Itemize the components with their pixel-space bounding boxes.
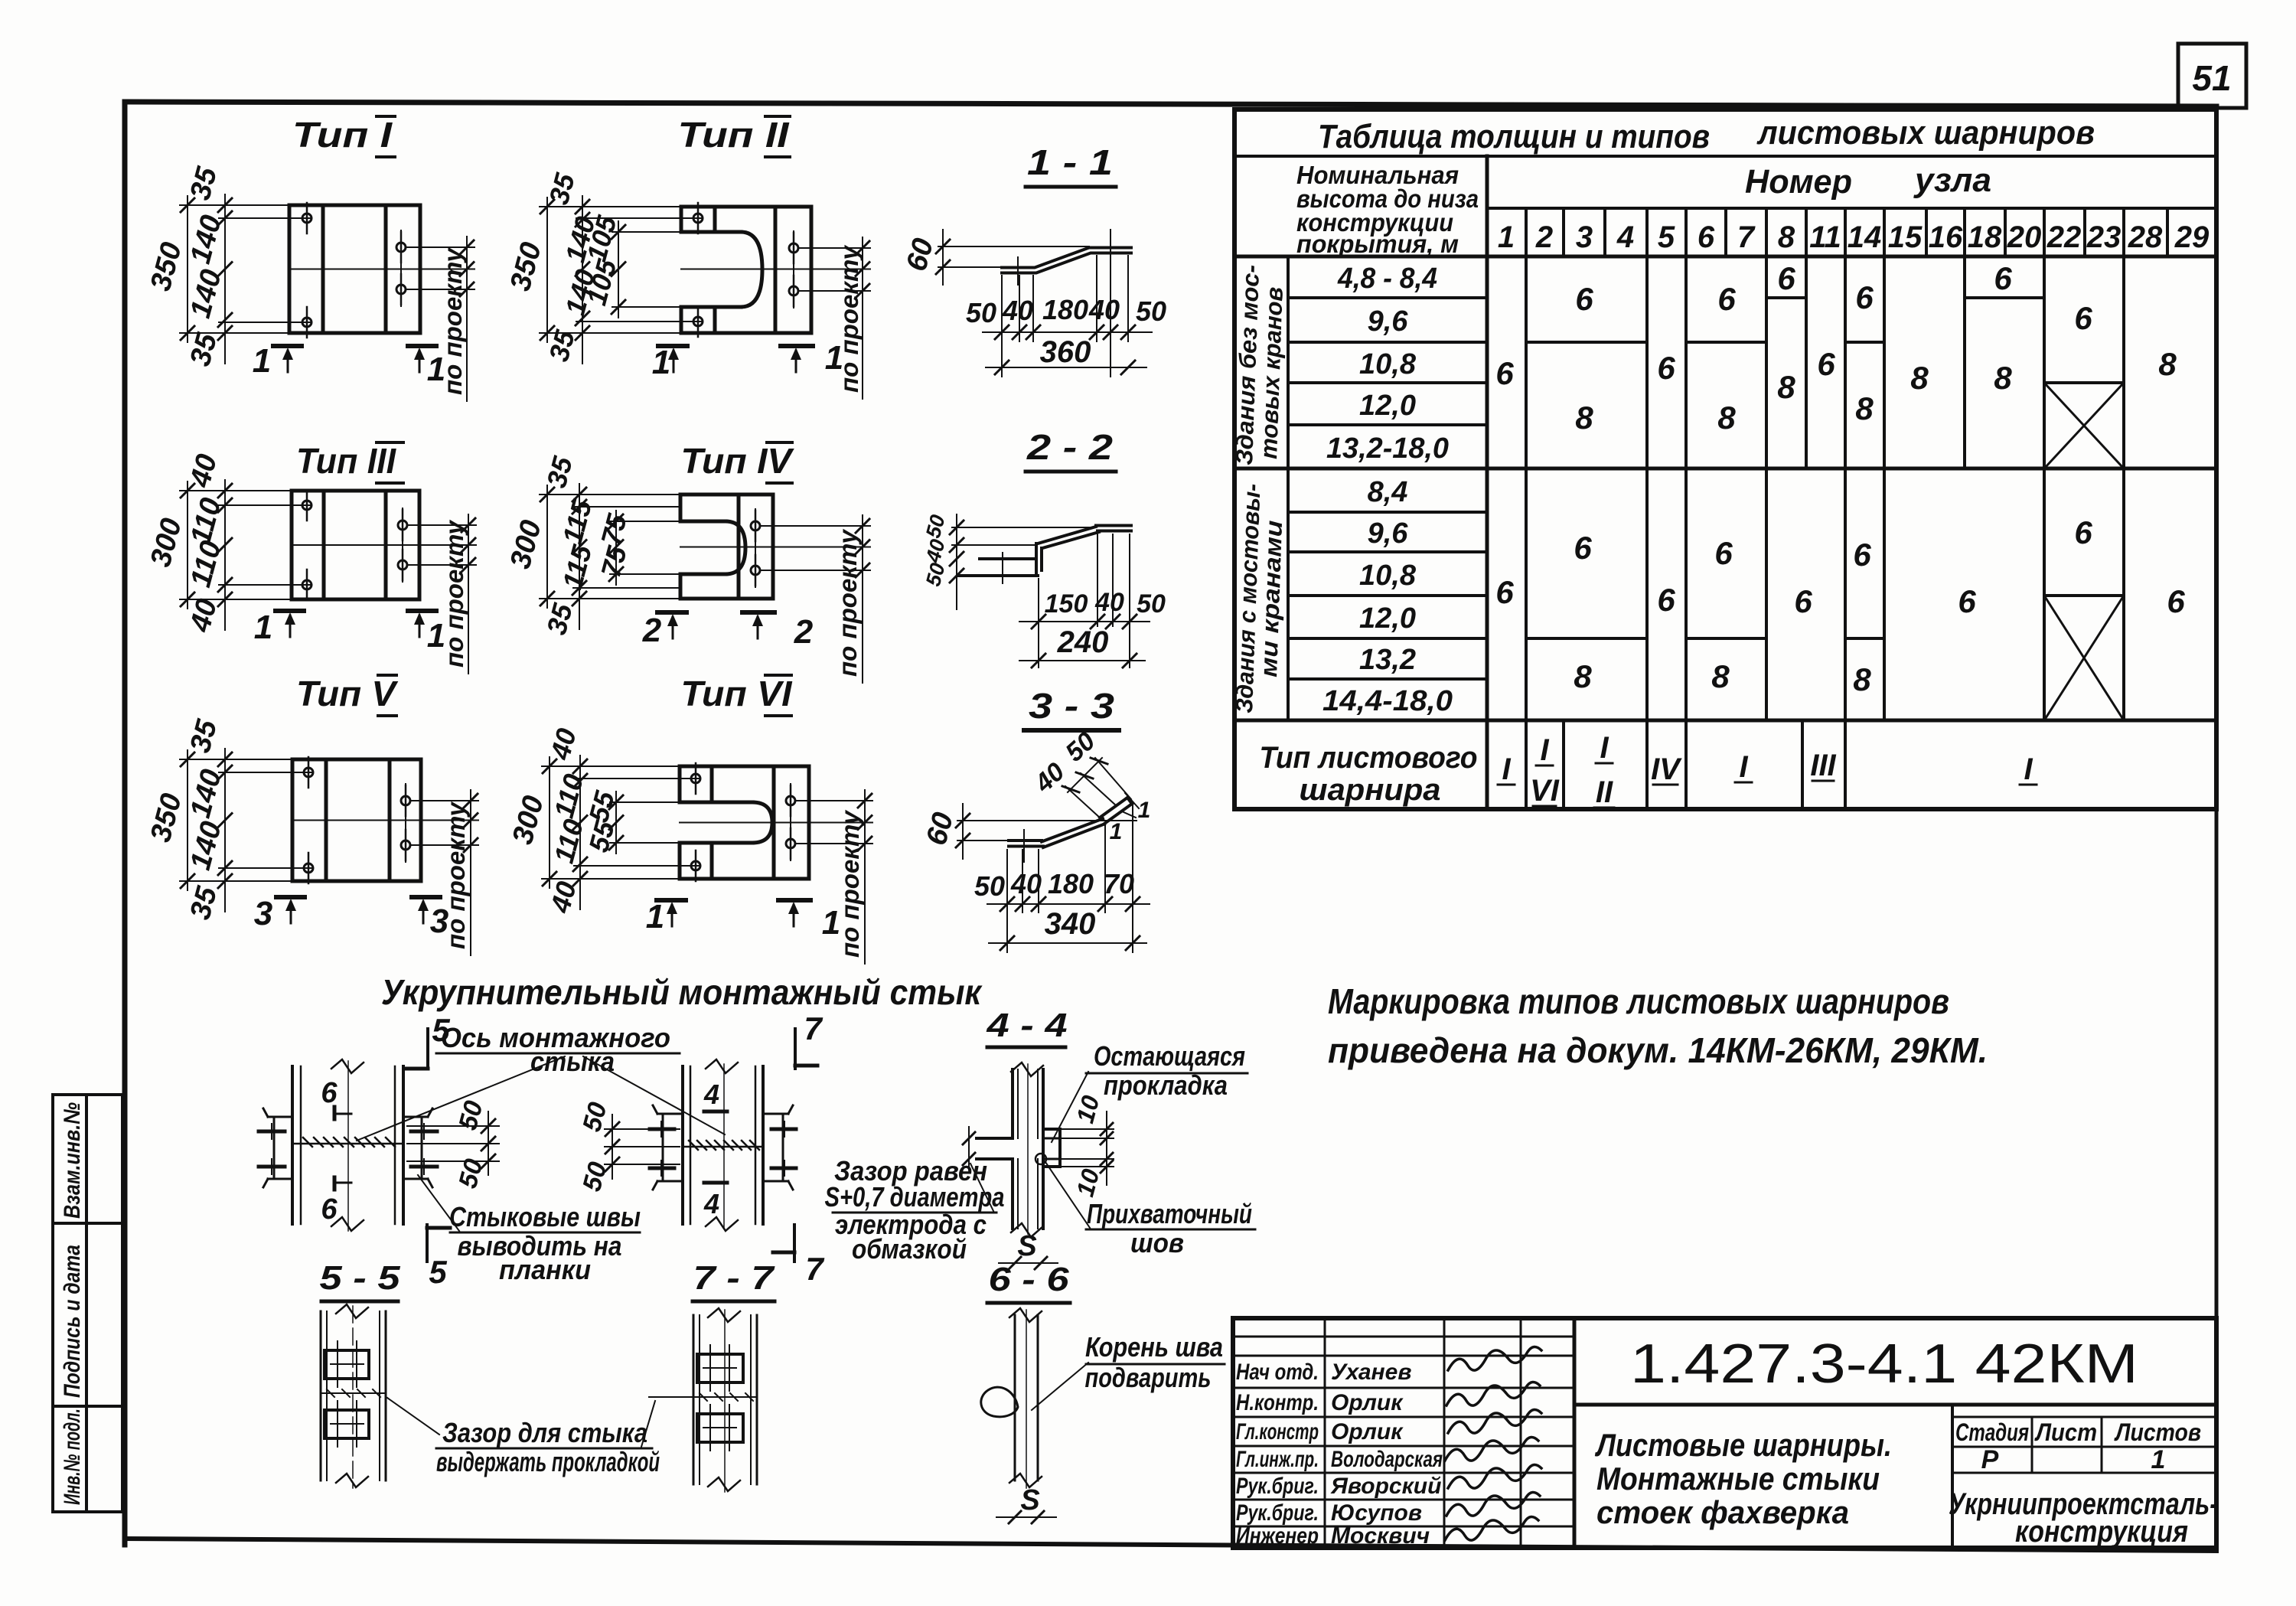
svg-text:13,2: 13,2 <box>1359 644 1416 676</box>
svg-text:340: 340 <box>1045 907 1096 941</box>
section 3-3 sheet left flat <box>1009 839 1042 842</box>
svg-text:6: 6 <box>1575 281 1593 317</box>
Тип VI plate outline bottom edge <box>680 877 809 881</box>
svg-text:2: 2 <box>642 612 662 649</box>
Тип IV plate right bolt bottom <box>751 566 760 575</box>
svg-text:50: 50 <box>966 297 996 328</box>
detail1 dim 50 50 extension lines <box>407 1125 499 1127</box>
svg-text:40: 40 <box>1002 295 1033 326</box>
svg-text:6: 6 <box>1794 583 1812 619</box>
svg-text:Тип II: Тип II <box>678 115 790 155</box>
left sidebar boxes <box>53 1095 122 1512</box>
Тип II plate right bolt extension lines <box>798 247 870 249</box>
svg-text:планки: планки <box>499 1254 591 1285</box>
svg-text:8: 8 <box>1575 400 1593 436</box>
Тип III plate right bolt top <box>398 521 407 530</box>
detail2 column right edge <box>755 1066 757 1224</box>
svg-text:Яворский: Яворский <box>1330 1474 1441 1499</box>
svg-text:I: I <box>1600 731 1609 765</box>
Тип II plate outline left edge bottom <box>680 307 683 333</box>
staff table row lines <box>1233 1336 1574 1338</box>
detail1 section 6 mark top <box>333 1107 337 1119</box>
Тип IV plate outline top edge <box>680 493 773 497</box>
detail 4-4 dim 10 extension lines <box>1060 1128 1114 1130</box>
column line 2567 <box>1963 208 1966 468</box>
svg-text:8,4: 8,4 <box>1368 476 1408 508</box>
Тип V plate section mark right <box>412 895 440 899</box>
Тип I plate po proektu dim line <box>466 237 468 401</box>
svg-text:II: II <box>1596 775 1613 809</box>
title block vertical divider staff/main <box>1573 1318 1577 1548</box>
svg-text:8: 8 <box>1778 220 1795 254</box>
detail2 dim 50 50 line <box>612 1115 613 1179</box>
svg-text:9,6: 9,6 <box>1368 517 1409 550</box>
Тип III plate inner vertical right strip <box>384 491 388 599</box>
section 2-2 sheet diagonal <box>1038 527 1096 543</box>
section 2-2 left dim line <box>956 514 957 609</box>
Тип VI plate outline left edge bottom <box>678 843 682 879</box>
Тип V plate left bolt top <box>304 768 313 777</box>
detail 4-4 break bottom <box>1011 1223 1043 1237</box>
Тип I plate right bolt bottom <box>396 285 406 294</box>
numbers sub-header top line <box>1487 207 2216 210</box>
Тип II plate tab inner vertical bottom <box>713 307 717 333</box>
detail2 splice joint <box>683 1146 763 1148</box>
svg-text:шов: шов <box>1130 1227 1184 1258</box>
Тип V plate right bolt axis <box>405 784 406 862</box>
svg-text:3 - 3: 3 - 3 <box>1029 686 1115 726</box>
svg-text:Зазор для стыка: Зазор для стыка <box>442 1417 647 1448</box>
svg-text:Прихваточный: Прихваточный <box>1087 1198 1252 1229</box>
detail 5-5 stub bolts <box>337 1341 338 1387</box>
Тип III plate right bolt extension lines <box>407 524 476 526</box>
Тип III plate left bolt top <box>302 501 311 510</box>
svg-text:Тип листового: Тип листового <box>1260 741 1478 775</box>
detail1 left cover plate <box>273 1118 276 1177</box>
svg-text:8: 8 <box>1994 360 2012 396</box>
Тип VI plate tab inner vertical top <box>710 766 714 802</box>
detail1 column axis <box>347 1061 349 1231</box>
Тип VI plate po proektu dim line <box>864 790 866 964</box>
svg-text:360: 360 <box>1040 335 1091 369</box>
svg-text:Орлик: Орлик <box>1331 1419 1404 1444</box>
svg-text:6: 6 <box>1853 537 1871 573</box>
type title numeral underlines <box>377 115 395 118</box>
svg-text:Подпись и дата: Подпись и дата <box>60 1245 85 1398</box>
Тип IV plate right bolt top <box>751 521 760 530</box>
Тип IV plate divider vertical <box>737 495 741 599</box>
signature squiggle 3 <box>1448 1409 1541 1433</box>
Тип I plate right bolt top <box>396 243 406 252</box>
Тип II plate section mark left <box>658 344 687 348</box>
section 5 mark bottom <box>426 1225 429 1262</box>
leader прихваточный <box>1045 1162 1090 1228</box>
svg-text:1: 1 <box>1138 798 1151 823</box>
Тип V plate right bolt bottom <box>401 841 410 850</box>
Тип V plate overall dimension line <box>187 750 188 890</box>
detail 7-7 stub bolts <box>709 1345 711 1391</box>
svg-text:Москвич: Москвич <box>1331 1523 1430 1549</box>
Тип IV plate slot dimension line <box>615 511 617 585</box>
Тип VI plate tab inner vertical bottom <box>710 843 714 879</box>
svg-text:Тип III: Тип III <box>296 441 396 481</box>
svg-text:Рук.бриг.: Рук.бриг. <box>1236 1474 1319 1499</box>
Тип V plate right bolt extension lines <box>410 800 478 801</box>
detail2 section 4 mark bottom <box>704 1181 727 1185</box>
signature squiggle 6 <box>1446 1492 1540 1516</box>
svg-text:51: 51 <box>2192 58 2231 98</box>
section 3-3 flap dim line <box>1068 758 1102 792</box>
svg-text:I: I <box>1540 733 1549 767</box>
svg-text:20: 20 <box>2007 220 2042 254</box>
section 2-2 sheet vertical step <box>1035 543 1038 576</box>
Тип VI plate right bolt top <box>786 796 795 805</box>
Тип VI plate section mark right <box>778 898 810 903</box>
svg-text:28: 28 <box>2128 220 2163 254</box>
leader зазор <box>970 1164 993 1211</box>
Тип VI plate section mark left <box>657 898 686 903</box>
section 7 mark bottom <box>793 1225 796 1262</box>
Тип VI plate extension lines <box>542 765 680 767</box>
detail 7-7 break bottom <box>708 1477 740 1491</box>
Тип III plate chain dimension line <box>224 480 226 630</box>
svg-text:29: 29 <box>2174 220 2210 254</box>
detail 6-6 plate edges <box>1014 1315 1016 1480</box>
svg-text:16: 16 <box>1929 220 1963 254</box>
row line 389 <box>1288 296 1487 299</box>
Тип VI plate overall dimension line <box>549 757 550 888</box>
Тип II plate section mark right <box>781 344 813 348</box>
svg-text:9,6: 9,6 <box>1368 305 1409 338</box>
Тип VI plate slot top edge <box>680 801 752 805</box>
Тип I plate center line <box>289 269 475 270</box>
Тип II plate tab bolt 1 <box>693 214 703 223</box>
detail1 splice joint line <box>292 1143 403 1145</box>
title block outer frame <box>1233 1318 2216 1548</box>
detail 7-7 hinge stub bottom <box>697 1414 743 1442</box>
svg-text:6: 6 <box>1657 582 1675 618</box>
svg-text:Лист: Лист <box>2034 1418 2097 1446</box>
Тип IV plate section mark left <box>657 610 687 615</box>
svg-text:1: 1 <box>253 342 271 380</box>
Тип IV plate slot bottom edge <box>680 573 726 576</box>
detail 4-4 hinge plate joint lines <box>1043 1138 1060 1140</box>
svg-text:покрытия, м: покрытия, м <box>1296 230 1459 258</box>
Тип VI plate right bolt extension lines <box>795 800 872 801</box>
svg-text:1: 1 <box>822 904 840 942</box>
Тип III plate section mark left <box>276 609 304 613</box>
section 3-3 extension verticals <box>1006 850 1008 952</box>
svg-text:14: 14 <box>1848 220 1882 254</box>
column numbers <box>1498 220 2210 254</box>
svg-text:S: S <box>1020 1484 1039 1516</box>
detail 5-5 joint gap <box>321 1392 386 1394</box>
table texts <box>1231 114 2210 809</box>
crossed-out cell upper 22-23 <box>2044 383 2124 468</box>
svg-text:40: 40 <box>1010 868 1042 899</box>
section 2-2 extension lines left <box>952 527 1094 528</box>
column line 2724 <box>2083 208 2086 256</box>
svg-text:50: 50 <box>1136 295 1166 327</box>
svg-text:Володарская: Володарская <box>1331 1447 1443 1472</box>
svg-text:6: 6 <box>2167 583 2185 619</box>
Тип III plate inner vertical left strip <box>322 491 326 599</box>
row line 887 <box>1288 677 1487 681</box>
detail 5-5 plate edges <box>320 1311 322 1480</box>
svg-text:7: 7 <box>1737 220 1756 254</box>
svg-text:18: 18 <box>1968 220 2002 254</box>
svg-text:Номер: Номер <box>1745 163 1852 201</box>
svg-text:узла: узла <box>1913 162 1991 199</box>
svg-text:8: 8 <box>1711 658 1730 694</box>
Тип I plate overall dimension line <box>187 196 188 342</box>
Тип V plate center line <box>292 820 478 821</box>
svg-text:180: 180 <box>1042 294 1088 325</box>
detail 4-4 hinge plate left <box>977 1137 1013 1140</box>
svg-text:Орлик: Орлик <box>1331 1390 1404 1415</box>
signature squiggle 2 <box>1446 1382 1540 1405</box>
column line 2203 <box>1684 208 1688 809</box>
bottom row roman numerals <box>1502 731 2033 809</box>
svg-text:Укрупнительный монтажный сты: Укрупнительный монтажный стык <box>381 972 983 1012</box>
detail1 splice weld hatch <box>303 1138 312 1147</box>
svg-text:8: 8 <box>1717 400 1736 436</box>
svg-text:5: 5 <box>432 1012 450 1048</box>
data values upper section <box>1495 260 2177 436</box>
svg-text:40: 40 <box>1094 588 1124 617</box>
section divider line <box>1234 467 2216 471</box>
svg-text:1: 1 <box>1110 819 1123 844</box>
leader остающаяся <box>1052 1072 1088 1142</box>
Тип IV plate center line <box>680 547 870 548</box>
svg-text:Тип VI: Тип VI <box>681 674 793 713</box>
svg-text:6: 6 <box>1714 535 1733 571</box>
column line 2462 <box>1883 208 1886 720</box>
svg-text:Тип IV: Тип IV <box>681 441 794 481</box>
svg-text:6: 6 <box>1777 260 1795 296</box>
Тип VI plate tab bolt 1 <box>691 774 700 783</box>
svg-text:III: III <box>1810 749 1836 782</box>
detail 6-6 break top <box>1009 1308 1042 1322</box>
detail 7-7 hinge stub top <box>697 1354 743 1382</box>
Тип VI plate tab bolt 2 <box>691 861 700 870</box>
leader корень шва <box>1032 1363 1088 1410</box>
label Зазор для стыка <box>387 1398 439 1435</box>
svg-text:3: 3 <box>430 903 448 940</box>
Тип III plate right bolt axis <box>402 508 403 582</box>
svg-text:1: 1 <box>427 617 445 654</box>
Тип II plate right bolt axis <box>793 231 794 308</box>
detail2 break bottom <box>706 1217 738 1231</box>
section 5 mark top <box>426 1029 429 1069</box>
column line 1994 <box>1525 208 1528 809</box>
section 1-1 dim 360 line <box>986 367 1146 368</box>
svg-text:8: 8 <box>1855 390 1874 426</box>
Тип III plate overall dimension line <box>187 481 188 609</box>
svg-text:40: 40 <box>1088 294 1120 325</box>
svg-text:2: 2 <box>1535 220 1553 254</box>
detail 6-6 break bottom <box>1009 1474 1042 1487</box>
detail 7-7 plate edges <box>693 1315 695 1484</box>
group label column divider <box>1287 256 1290 720</box>
svg-text:конструкция: конструкция <box>2015 1515 2188 1549</box>
row labels <box>1322 263 1453 717</box>
svg-text:8: 8 <box>2158 346 2177 382</box>
svg-text:1: 1 <box>427 351 445 388</box>
leader from cover bolts <box>418 1175 459 1231</box>
Тип V plate inner vertical right strip <box>388 759 392 881</box>
page number box 51 <box>2178 44 2246 108</box>
svg-text:Стыковые швы: Стыковые швы <box>449 1201 641 1232</box>
column line 2255 <box>1724 208 1727 256</box>
section 3-3 left surface extension <box>957 840 1009 841</box>
Тип VI plate outline right edge <box>807 766 811 879</box>
section 7 mark top <box>794 1029 797 1069</box>
svg-text:1: 1 <box>825 339 843 377</box>
section 2-2 sheet right flat <box>1096 524 1131 527</box>
svg-text:Корень шва: Корень шва <box>1085 1331 1223 1363</box>
svg-text:12,0: 12,0 <box>1359 390 1416 422</box>
Тип III plate plate outline <box>292 491 419 599</box>
detail 4-4 backing strip <box>1043 1129 1060 1167</box>
row line 778 <box>1288 594 1487 597</box>
Тип VI plate chain dimension line <box>579 756 581 909</box>
row line 721 <box>1288 550 1487 553</box>
Тип I plate chain dimension line <box>224 194 226 364</box>
Тип III plate right bolt bottom <box>398 560 407 570</box>
detail1 left cover bolts <box>259 1130 285 1134</box>
section 2-2 chain dim line <box>1019 621 1150 622</box>
Тип II plate outline bottom edge <box>681 331 811 335</box>
roman numeral underlines <box>1498 763 2037 808</box>
svg-text:1: 1 <box>254 609 272 646</box>
table outer frame <box>1234 109 2216 809</box>
Тип II plate tab bolt 2 <box>693 317 703 326</box>
section 1-1 bent sheet top line <box>1002 248 1131 268</box>
Тип VI plate center line <box>680 822 872 824</box>
svg-text:IV: IV <box>1651 752 1682 786</box>
section 2-2 extension verticals <box>1038 579 1039 668</box>
Тип V plate inner vertical left strip <box>325 759 328 881</box>
section 1-1 left surface extension line <box>938 266 1002 268</box>
svg-text:Р: Р <box>1981 1445 1999 1474</box>
svg-text:12,0: 12,0 <box>1359 602 1416 635</box>
svg-text:по проекту: по проекту <box>833 528 862 677</box>
svg-text:7: 7 <box>804 1010 823 1046</box>
Тип II plate right bolt top <box>789 243 798 253</box>
svg-text:2: 2 <box>794 613 814 651</box>
svg-text:Гл.инж.пр.: Гл.инж.пр. <box>1236 1447 1319 1472</box>
table title row bottom line <box>1234 155 2216 158</box>
section 3-3 dim 60 line <box>962 804 964 859</box>
svg-text:Маркировка типов листовых шарн: Маркировка типов листовых шарниров <box>1328 981 1949 1021</box>
column line 2152 <box>1645 208 1649 809</box>
section 1-1 bent sheet bottom line <box>1002 253 1131 273</box>
header bottom line <box>1234 255 2216 259</box>
signature squiggle 7 <box>1445 1516 1538 1540</box>
section 1-1 dim 60 line <box>942 230 944 285</box>
Тип II plate tab inner vertical top <box>713 207 717 232</box>
svg-text:23: 23 <box>2086 220 2122 254</box>
Тип IV plate chain dimension line <box>579 484 580 629</box>
svg-text:6: 6 <box>1495 574 1514 610</box>
svg-text:Листов: Листов <box>2114 1418 2201 1446</box>
svg-text:2 - 2: 2 - 2 <box>1026 427 1114 467</box>
detail 4-4 gap dim line <box>968 1127 970 1170</box>
svg-text:Н.контр.: Н.контр. <box>1236 1390 1319 1415</box>
svg-text:1: 1 <box>1498 220 1515 254</box>
detail2 right side plate <box>782 1116 784 1179</box>
Тип II plate outline top edge <box>681 205 811 209</box>
detail1 right cover bolts <box>411 1130 437 1134</box>
column line 2620 <box>2004 208 2007 256</box>
svg-text:10,8: 10,8 <box>1359 348 1417 380</box>
section 3-3 flap dim extensions <box>1065 786 1101 819</box>
svg-text:150: 150 <box>1045 589 1088 619</box>
Тип III plate section mark right <box>408 609 436 613</box>
body bottom line <box>1234 719 2216 723</box>
svg-text:14,4-18,0: 14,4-18,0 <box>1322 685 1453 717</box>
Тип II plate extension lines <box>540 206 681 207</box>
section 3-3 upturned flap <box>1100 798 1127 818</box>
detail2 right plate bolts <box>771 1128 796 1131</box>
column line 2832 <box>2166 208 2169 256</box>
row line 669 <box>1288 511 1487 514</box>
svg-text:Юсупов: Юсупов <box>1331 1500 1422 1526</box>
svg-text:ми кранами: ми кранами <box>1255 520 1287 677</box>
signature squiggle 5 <box>1448 1464 1541 1488</box>
crossed-out cell lower 22-23 <box>2044 596 2124 720</box>
Тип I plate left bolt bottom <box>302 318 311 327</box>
Тип II plate outline right edge <box>810 207 814 333</box>
svg-text:I: I <box>1739 750 1748 784</box>
section 3-3 bend level extension line <box>957 820 1137 821</box>
Тип II plate slot dimension line <box>618 221 619 318</box>
section 3-3 chain dim line <box>987 903 1150 905</box>
section 1-1 extension verticals <box>1001 276 1003 377</box>
svg-text:4: 4 <box>1616 220 1634 254</box>
svg-text:S+0,7 диаметра: S+0,7 диаметра <box>825 1181 1005 1213</box>
Тип V plate po proektu dim line <box>470 790 471 955</box>
leader to detail1 splice <box>357 1056 565 1141</box>
svg-text:1: 1 <box>646 898 664 935</box>
svg-text:стыка: стыка <box>530 1046 615 1077</box>
signature squiggle 4 <box>1445 1437 1538 1461</box>
svg-text:4,8 - 8,4: 4,8 - 8,4 <box>1337 263 1437 295</box>
svg-text:70: 70 <box>1104 868 1134 899</box>
Тип IV plate outline right edge <box>771 495 775 599</box>
detail2 break top <box>706 1059 738 1073</box>
section 2-2 dim 240 line <box>1019 660 1145 661</box>
Тип IV plate slot rounded end <box>726 521 745 574</box>
column line 2097 <box>1603 208 1606 256</box>
detail2 left plate bolts <box>650 1128 674 1131</box>
Тип VI plate slot rounded end <box>752 802 772 843</box>
svg-text:6: 6 <box>1657 350 1675 386</box>
svg-text:прокладка: прокладка <box>1104 1069 1228 1101</box>
detail 6-6 weld root <box>981 1387 1018 1417</box>
Тип IV plate slot top edge <box>680 520 726 524</box>
Тип IV plate outline bottom edge <box>680 597 773 601</box>
Тип II plate chain dimension line <box>582 196 583 364</box>
Тип II plate slot top edge <box>681 230 741 234</box>
detail 4-4 tack weld dot <box>1035 1154 1046 1164</box>
svg-text:5 - 5: 5 - 5 <box>320 1259 401 1297</box>
svg-text:стоек фахверка: стоек фахверка <box>1596 1494 1849 1530</box>
svg-text:1 - 1: 1 - 1 <box>1027 142 1113 182</box>
staff table column lines <box>1324 1318 1326 1548</box>
svg-text:6: 6 <box>2074 514 2092 550</box>
